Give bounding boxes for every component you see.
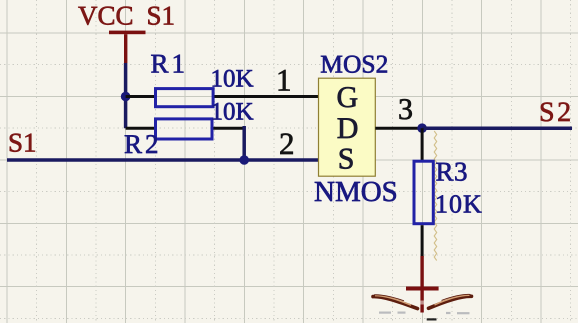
component MOS2 body [319, 78, 376, 176]
junction at VCC/R1 [121, 92, 131, 102]
svg-text:G: G [337, 81, 359, 114]
svg-text:MOS2: MOS2 [320, 49, 388, 78]
svg-text:NMOS: NMOS [314, 176, 398, 208]
power symbol VCC bar [109, 31, 146, 63]
wire S1 net to MOS source [7, 158, 319, 162]
svg-text:S2: S2 [539, 97, 574, 128]
svg-text:S: S [338, 143, 355, 176]
svg-text:2: 2 [279, 126, 295, 161]
ground symbol bar [406, 287, 439, 291]
watermark left wing [373, 295, 418, 309]
svg-text:D: D [337, 112, 359, 145]
junction drain node [417, 123, 427, 133]
watermark highlight crossing ground stem [420, 301, 424, 305]
wire R2 right [214, 127, 245, 130]
resistor R1 [156, 89, 214, 107]
wire R3 bottom to ground [421, 225, 424, 257]
wire junction to R1 left [126, 95, 154, 98]
wire drain node to S2 [422, 126, 572, 130]
ground symbol stem [420, 256, 423, 313]
junction R2/S1 net [239, 155, 249, 165]
svg-text:3: 3 [398, 93, 413, 126]
wire MOS drain to junction [375, 127, 422, 130]
svg-text:R3: R3 [436, 157, 469, 187]
wire column to R2 left [126, 127, 154, 130]
svg-text:VCC: VCC [78, 1, 134, 31]
svg-text:R2: R2 [124, 129, 162, 159]
wire drop R2 to S1 net [242, 126, 246, 160]
svg-text:R1: R1 [151, 49, 189, 79]
watermark right wing [429, 294, 472, 308]
svg-text:10K: 10K [211, 99, 254, 126]
compile-warning squiggle along R3 net [434, 131, 437, 261]
resistor R2 [156, 119, 213, 139]
svg-text:S1: S1 [8, 128, 37, 158]
watermark underline dashes [379, 312, 470, 315]
svg-text:10K: 10K [435, 190, 483, 219]
resistor R3 [414, 161, 433, 224]
svg-text:S1: S1 [147, 1, 176, 31]
svg-text:1: 1 [276, 63, 292, 98]
wire VCC stem to R1/R2 column [124, 63, 128, 128]
svg-text:10K: 10K [211, 66, 254, 93]
wire R1 right to MOS gate [215, 95, 319, 98]
ground bottom tick [427, 318, 437, 320]
wire drain node down to R3 [421, 128, 424, 160]
